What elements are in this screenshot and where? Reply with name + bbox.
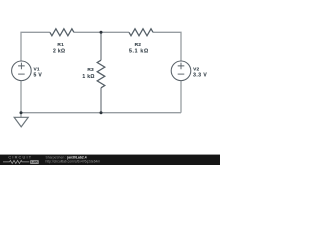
wire top-middle segment (R1 right to R2 left, through node A) <box>74 31 129 33</box>
svg-text:SharpeShen : jan30Lab2.4: SharpeShen : jan30Lab2.4 <box>46 155 87 159</box>
wire top-right segment (R2 right to V2 top) <box>153 32 181 61</box>
svg-text:LAB: LAB <box>31 160 38 164</box>
resistor R3 <box>97 60 105 88</box>
CircuitLab logo LAB box <box>30 160 39 164</box>
svg-text:1 kΩ: 1 kΩ <box>82 74 94 80</box>
svg-text:R3: R3 <box>87 67 94 73</box>
svg-text:V2: V2 <box>193 67 199 73</box>
svg-text:5 V: 5 V <box>34 73 43 79</box>
svg-text:3.3 V: 3.3 V <box>193 73 207 79</box>
svg-text:CIRCUIT: CIRCUIT <box>8 155 32 160</box>
wire R3 bottom lead <box>100 88 102 113</box>
ground <box>14 117 28 127</box>
resistor R2 <box>129 29 153 36</box>
svg-text:R2: R2 <box>135 42 142 48</box>
node A (R1/R2/R3 junction) <box>100 31 103 34</box>
wire right-lower segment (V2 bottom to bottom rail) <box>180 81 182 113</box>
voltage source V2 <box>171 61 191 81</box>
watermark bar background <box>0 155 220 165</box>
wire top-left segment (V1 top to R1 left lead) <box>21 32 50 61</box>
svg-text:http://circuitlab.com/c/6x476q: http://circuitlab.com/c/6x476q2de64m <box>46 160 101 164</box>
svg-text:2 kΩ: 2 kΩ <box>53 49 65 55</box>
svg-text:R1: R1 <box>57 42 64 48</box>
svg-text:V1: V1 <box>34 67 40 73</box>
node R3 bottom junction <box>100 111 103 114</box>
wire left-lower segment (V1 bottom to ground node) <box>20 81 22 118</box>
voltage source V1 <box>12 61 32 81</box>
wire bottom segment (ground node to V2 bottom) <box>21 112 181 114</box>
node ground junction <box>20 111 23 114</box>
wire R3 top lead <box>100 32 102 60</box>
CircuitLab logo resistor squiggle <box>3 160 29 163</box>
resistor R1 <box>50 29 74 36</box>
svg-text:5.1 kΩ: 5.1 kΩ <box>129 49 149 55</box>
